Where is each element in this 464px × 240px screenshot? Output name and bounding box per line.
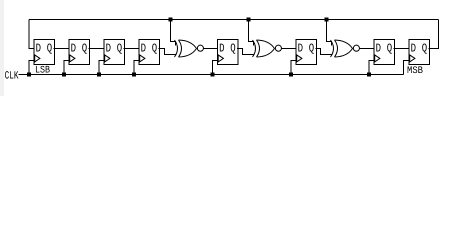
D flip-flop FF5 xyxy=(218,40,239,65)
svg-text:MSB: MSB xyxy=(407,66,423,77)
junction node on clock rail for FF6 xyxy=(289,73,293,77)
junction node on top rail (tap 3) xyxy=(325,18,329,22)
D flip-flop FF8 (MSB) xyxy=(409,40,430,65)
clock input edge-triangle xyxy=(70,55,75,62)
svg-text:D: D xyxy=(219,42,224,56)
inversion bubble xyxy=(197,45,203,51)
wire: feedback drop into FF1 D input xyxy=(29,20,34,49)
flip-flop body box xyxy=(104,40,125,65)
wire: FF7 Q to FF8 D xyxy=(394,48,410,50)
junction node on top rail (tap 2) xyxy=(247,18,251,22)
clock input edge-triangle xyxy=(140,55,145,62)
wire: clock branch up into FF2 clock input xyxy=(64,61,69,75)
gate body curving to output point xyxy=(257,40,275,57)
wire: XNOR G1 output to FF5 D input xyxy=(204,48,218,50)
wire: clock rail end bend up into FF8 clock input xyxy=(404,61,410,75)
wire: tap drop from top rail to XNOR G2 upper input xyxy=(249,20,254,46)
junction node on clock rail for FF5 xyxy=(211,73,215,77)
junction node on clock rail for FF2 xyxy=(62,73,66,77)
svg-text:D: D xyxy=(71,42,76,56)
svg-text:LSB: LSB xyxy=(35,66,50,77)
gate body curving to output point xyxy=(179,40,197,57)
D flip-flop FF6 xyxy=(296,40,317,65)
junction node on clock rail for FF1 xyxy=(27,73,31,77)
wire: clock branch up into FF5 clock input xyxy=(213,61,218,75)
svg-text:Q: Q xyxy=(152,42,157,56)
wire: top feedback rail from FF8 Q back toward FF1 xyxy=(29,19,439,21)
gate body curving to output point xyxy=(335,40,353,57)
input double-arc back xyxy=(253,40,256,57)
wire: FF3 Q to FF4 D xyxy=(124,48,140,50)
D flip-flop FF3 xyxy=(104,40,125,65)
XNOR gate G1 xyxy=(175,40,204,57)
svg-text:D: D xyxy=(141,42,146,56)
D flip-flop FF4 xyxy=(139,40,160,65)
junction node on clock rail for FF3 xyxy=(97,73,101,77)
svg-text:CLK: CLK xyxy=(5,70,19,82)
wire: FF6 Q jog down to XNOR G3 lower input xyxy=(316,49,332,55)
wire: FF1 Q to FF2 D xyxy=(54,48,70,50)
flip-flop body box xyxy=(69,40,90,65)
clock input edge-triangle xyxy=(297,55,302,62)
clock input edge-triangle xyxy=(410,55,415,62)
flip-flop body box xyxy=(139,40,160,65)
clock input edge-triangle xyxy=(105,55,110,62)
svg-text:Q: Q xyxy=(82,42,87,56)
wire: FF8 Q output up to top feedback rail xyxy=(429,20,439,49)
svg-text:Q: Q xyxy=(422,42,427,56)
clock input edge-triangle xyxy=(375,55,380,62)
flip-flop body box xyxy=(409,40,430,65)
junction node on clock rail for FF4 xyxy=(132,73,136,77)
junction node on clock rail for FF7 xyxy=(367,73,371,77)
wire: tap drop from top rail to XNOR G3 upper input xyxy=(327,20,332,46)
svg-text:Q: Q xyxy=(309,42,314,56)
wire: clock branch up into FF3 clock input xyxy=(99,61,104,75)
flip-flop body box xyxy=(218,40,239,65)
clock input edge-triangle xyxy=(35,55,40,62)
wire: FF2 Q to FF3 D xyxy=(89,48,105,50)
svg-text:D: D xyxy=(411,42,416,56)
flip-flop body box xyxy=(34,40,55,65)
svg-text:Q: Q xyxy=(387,42,392,56)
inversion bubble xyxy=(353,45,359,51)
flip-flop body box xyxy=(296,40,317,65)
input double-arc back xyxy=(331,40,334,57)
wire: XNOR G2 output to FF6 D input xyxy=(282,48,297,50)
wire: clock branch up into FF4 clock input xyxy=(134,61,139,75)
wire: FF5 Q jog down to XNOR G2 lower input xyxy=(237,49,254,55)
XNOR gate G3 xyxy=(331,40,360,57)
clock input edge-triangle xyxy=(218,55,223,62)
wire: CLK distribution rail along bottom xyxy=(19,74,404,76)
svg-text:D: D xyxy=(36,42,41,56)
XNOR gate G2 xyxy=(253,40,282,57)
inversion bubble xyxy=(275,45,281,51)
wire: XNOR G3 output to FF7 D input xyxy=(360,48,375,50)
wire: clock branch up into FF1 clock input xyxy=(29,61,34,75)
D flip-flop FF7 xyxy=(374,40,395,65)
svg-text:D: D xyxy=(376,42,381,56)
svg-text:Q: Q xyxy=(47,42,52,56)
D flip-flop FF2 xyxy=(69,40,90,65)
wire: clock branch up into FF7 clock input xyxy=(369,61,374,75)
svg-text:Q: Q xyxy=(117,42,122,56)
svg-text:Q: Q xyxy=(230,42,235,56)
svg-text:D: D xyxy=(106,42,111,56)
wire: FF4 Q jog down to XNOR G1 lower input xyxy=(159,49,176,55)
junction node on top rail (tap 1) xyxy=(169,18,173,22)
svg-text:D: D xyxy=(298,42,303,56)
input double-arc back xyxy=(175,40,178,57)
wire: clock branch up into FF6 clock input xyxy=(291,61,296,75)
wire: tap drop from top rail to XNOR G1 upper input xyxy=(171,20,176,46)
flip-flop body box xyxy=(374,40,395,65)
D flip-flop FF1 (LSB) xyxy=(34,40,55,65)
